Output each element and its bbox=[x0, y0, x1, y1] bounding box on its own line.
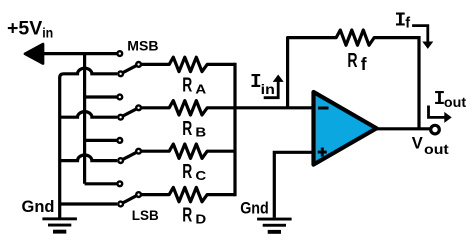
switch S1 upper contact bbox=[117, 51, 122, 56]
wire +5V stub to switch S2 upper contact bbox=[85, 95, 117, 98]
svg-text:MSB: MSB bbox=[127, 38, 158, 53]
switch S3 lever bbox=[121, 151, 139, 160]
resistor RB bbox=[142, 101, 236, 115]
current arrow Iin bbox=[264, 75, 284, 98]
op-amp plus sign bbox=[318, 148, 327, 157]
wire non-inverting input bbox=[274, 152, 313, 217]
op-amp minus sign bbox=[318, 107, 329, 110]
switch S4 upper contact bbox=[117, 181, 122, 186]
svg-text:B: B bbox=[195, 125, 206, 140]
svg-text:A: A bbox=[195, 81, 207, 96]
label Rf bbox=[347, 49, 366, 74]
wire inverting input bbox=[235, 106, 314, 109]
svg-text:C: C bbox=[195, 168, 207, 183]
current arrow If bbox=[412, 26, 433, 49]
switch S3 pole bbox=[136, 149, 141, 154]
switch S2 upper contact bbox=[117, 95, 122, 100]
svg-text:R: R bbox=[347, 49, 357, 72]
+5V supply arrowhead bbox=[25, 44, 43, 63]
label If bbox=[395, 9, 411, 31]
svg-text:out: out bbox=[444, 95, 467, 110]
svg-text:Gnd: Gnd bbox=[240, 200, 269, 218]
switch S2 lower contact bbox=[118, 115, 123, 120]
svg-text:+5V: +5V bbox=[7, 18, 42, 40]
resistor Rf with top feedback wire bbox=[288, 30, 419, 45]
current arrow Iout bbox=[429, 106, 452, 123]
svg-text:LSB: LSB bbox=[132, 207, 159, 223]
Gnd bus vertical with branch to S1 lower contact (hop over +5V bus) bbox=[60, 68, 117, 217]
switch S2 lever bbox=[121, 108, 139, 117]
svg-text:Gnd: Gnd bbox=[22, 198, 55, 216]
wire output node vertical bbox=[417, 36, 420, 129]
svg-text:f: f bbox=[405, 16, 410, 32]
wire +5V horizontal bbox=[40, 52, 117, 55]
svg-text:out: out bbox=[424, 142, 449, 157]
label Iin bbox=[250, 71, 275, 97]
switch S4 lower contact bbox=[118, 202, 123, 207]
ground symbol right bbox=[257, 218, 292, 234]
wire Gnd branch to S3 lower contact (hop over +5V bus) bbox=[60, 155, 117, 161]
switch S3 upper contact bbox=[117, 138, 122, 143]
wire output horizontal bbox=[377, 127, 432, 130]
wire +5V stub to switch S3 upper contact bbox=[85, 139, 117, 142]
label RA bbox=[182, 73, 207, 96]
svg-text:in: in bbox=[261, 82, 275, 97]
label RC bbox=[182, 160, 207, 183]
svg-text:R: R bbox=[182, 160, 192, 183]
wire feedback vertical bbox=[286, 38, 289, 108]
resistor RA bbox=[142, 57, 236, 71]
summing bus vertical bbox=[233, 63, 236, 196]
switch S1 lower contact bbox=[118, 71, 123, 76]
op-amp U1 bbox=[314, 92, 377, 165]
svg-text:D: D bbox=[195, 212, 206, 227]
svg-text:f: f bbox=[361, 54, 367, 74]
label Vout bbox=[412, 135, 449, 157]
wire +5V stub to switch S4 upper contact bbox=[85, 182, 117, 185]
wire Gnd branch to S2 lower contact (hop over +5V bus) bbox=[60, 112, 117, 118]
switch S1 (MSB) lever bbox=[121, 64, 139, 73]
+5V bus vertical bbox=[83, 52, 86, 184]
switch S3 lower contact bbox=[118, 158, 123, 163]
resistor RD bbox=[142, 187, 236, 201]
svg-text:R: R bbox=[182, 73, 192, 96]
svg-text:in: in bbox=[42, 26, 53, 41]
label RD bbox=[182, 204, 206, 227]
label Iout bbox=[434, 88, 467, 110]
switch S1 pole bbox=[136, 62, 141, 67]
resistor RC bbox=[142, 144, 236, 158]
ground symbol left bbox=[42, 217, 77, 233]
switch S4 (LSB) lever bbox=[121, 195, 139, 204]
label RB bbox=[182, 117, 206, 140]
svg-text:R: R bbox=[182, 117, 192, 140]
switch S2 pole bbox=[136, 105, 141, 110]
label +5Vin bbox=[7, 18, 53, 41]
switch S4 pole bbox=[136, 192, 141, 197]
svg-text:R: R bbox=[182, 204, 192, 227]
output terminal circle bbox=[431, 125, 440, 134]
svg-text:V: V bbox=[412, 135, 423, 153]
wire Gnd branch to S4 lower contact bbox=[60, 202, 117, 205]
